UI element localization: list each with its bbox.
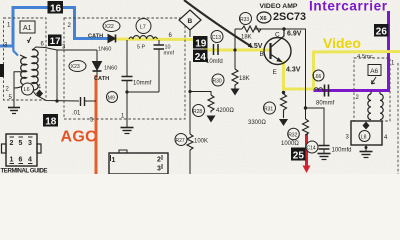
label A6 box [368,65,381,85]
dashed box IF transformer T1 left [4,18,47,100]
core adjust diamond L6 [36,90,43,98]
callout box 25 [291,148,306,162]
diode X22 1N60 [108,35,116,43]
wire middle box ground lead [126,92,128,127]
test point diamond B [179,10,201,37]
callout box 19 [193,36,208,50]
thick pointer line from B [184,0,252,47]
capacitor 80mmf [316,85,335,107]
wire L6 secondary bottom lead [32,90,79,102]
label R33 circle [240,13,252,25]
wire cap bottoms join [127,91,159,93]
wire L6 secondary top lead to pin 6 [32,47,97,50]
capacitor 10mmf upper [154,40,175,92]
capacitor C14 100mfd [315,145,352,154]
label R27 circle [175,134,187,146]
resistor R33 18K zigzag horizontal [242,26,261,32]
wire C14 branch [306,108,325,145]
dashed box 2nd IF transformer middle [64,18,185,119]
label A1 box [20,21,35,43]
ground C14 [318,154,331,160]
label R31 circle [264,102,276,114]
node collector junction [282,27,285,30]
node junction x127 [125,90,128,93]
wire collector rail [235,29,306,119]
capacitor 10mmf lower [122,40,152,92]
label R30 circle [212,74,224,86]
dashed edge next section [397,63,399,174]
wire R30 bias branch [234,29,236,69]
label L66 circle [313,70,324,81]
wire blue IF input [0,8,110,56]
callout box 18 [43,114,58,128]
label M9 circle [107,92,118,103]
terminal guide tick marks [10,137,33,164]
resistor R31 3300 zigzag [279,91,288,126]
resistor R27 100K zigzag [187,134,193,150]
callout box 16 [48,1,64,15]
callout box 17 [48,35,62,48]
ground arrow R28 [207,116,216,123]
dashed box intercarrier transformer right [354,58,390,121]
label L7 circle [136,19,151,34]
label R32 circle [288,128,300,140]
transformer L6 windings [20,50,38,90]
wire yellow video path [116,39,400,89]
resistor R28 4200 zigzag [208,95,214,113]
label R28 circle [193,105,205,117]
scan grain overlay [0,0,400,174]
node junction at x57 [55,99,58,102]
label C14 circle [306,141,318,153]
terminal guide box 2 bottom middle [109,150,168,174]
resistor R32 1000 zigzag [303,106,309,135]
label C13 circle [211,31,223,43]
callout box 24 [193,50,208,64]
node base bias junction [233,48,236,51]
capacitor .01 [72,97,96,117]
ground arrow R30 [231,89,240,96]
label X6 circle [257,12,271,23]
diode X23 1N60 [93,62,102,77]
terminal guide box [2,134,42,166]
wire purple intercarrier path [314,11,389,91]
coil box L8 [351,121,382,145]
wire x57 vertical [56,50,58,101]
callout box 26 [374,24,389,38]
ground L8 [360,152,373,158]
edge box stub left [0,64,4,77]
resistor R30 18K zigzag [232,69,238,90]
wire orange AGC line [95,75,98,174]
transistor X6 2SC73 [264,29,291,65]
ground middle box [121,128,134,134]
label X22 circle [103,21,120,32]
label X23 circle [69,61,86,72]
wire R28 branch [190,92,211,96]
label L6 circle [22,83,34,95]
capacitor C13 10mfd [206,40,223,65]
wire X23 branch down [96,50,98,61]
wire long vertical bias line [189,61,191,174]
wire L8 ground lead [365,145,368,152]
coil L7 [129,36,157,39]
node junction R28 tap [188,90,191,93]
intercarrier transformer coils [368,92,383,120]
ground under L6 [8,100,20,114]
wire red B+ arrow to 25 [303,134,311,173]
wire L6 primary leads [14,72,27,100]
coil L66 bumps on purple wire [314,88,323,91]
terminal guide pin digits [10,140,33,164]
